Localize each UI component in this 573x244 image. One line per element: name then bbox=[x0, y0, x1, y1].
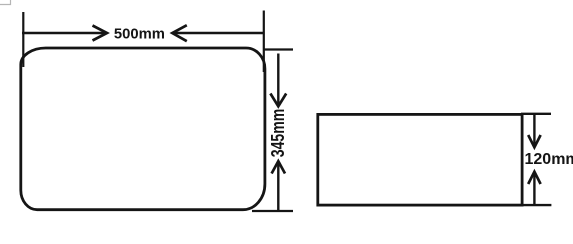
svg-text:345mm: 345mm bbox=[267, 109, 288, 158]
svg-text:120mm: 120mm bbox=[525, 151, 573, 168]
svg-text:500mm: 500mm bbox=[114, 26, 165, 42]
